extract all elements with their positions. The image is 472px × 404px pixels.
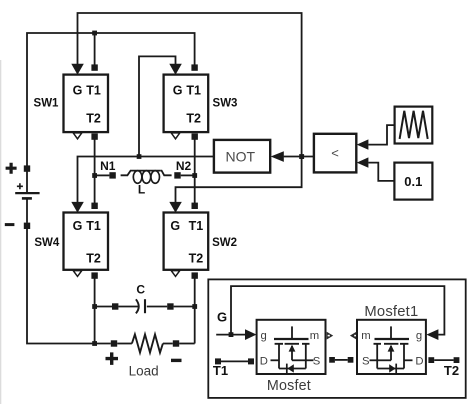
wire comparator output feedback to SW1 G (top bus) [78, 13, 302, 157]
wire bus to SW1 T1 [94, 33, 96, 65]
Mosfet1 channel link [377, 359, 391, 361]
NOT block [214, 140, 270, 173]
inset G input wire [216, 334, 245, 336]
svg-text:m: m [310, 330, 319, 342]
arrow into Mosfet1 g [426, 329, 438, 340]
svg-text:T2: T2 [186, 112, 201, 126]
wire comparator output to NOT input [284, 156, 314, 158]
junction square capacitor line right [192, 304, 197, 309]
wire node N1 stub [95, 174, 110, 176]
svg-text:0.1: 0.1 [404, 174, 422, 189]
svg-text:C: C [136, 283, 145, 297]
gate arrow into SW4 G [71, 202, 84, 213]
Mosfet1 gate stem [390, 326, 392, 338]
wire SW1 T2 down to SW4 T1 [94, 137, 96, 206]
switch block SW4 [64, 213, 109, 270]
wire SW4 T2 down to load line [94, 276, 96, 344]
wire comparator output down to SW2 G [176, 157, 302, 203]
output triangle below SW2 [171, 271, 180, 277]
arrow into Mosfet g [245, 329, 257, 340]
switch block SW3 [164, 75, 209, 133]
Mosfet1 gate bar [375, 338, 410, 340]
wire constant 0.1 to comparator [368, 163, 394, 181]
capacitor C [118, 306, 138, 308]
svg-text:T2: T2 [86, 112, 101, 126]
Mosfet U1 mid vertical [291, 346, 293, 360]
triangle waveform icon [400, 111, 428, 139]
Mosfet U1 gate stem [291, 326, 293, 338]
svg-text:N2: N2 [176, 159, 192, 173]
Mosfet1 D lead [404, 359, 413, 361]
battery wire to long plate [26, 171, 28, 193]
output triangle below SW3 [171, 133, 180, 139]
constant 0.1 block [394, 163, 432, 200]
battery negative port square [24, 223, 30, 229]
minus sign load [171, 359, 182, 362]
svg-text:SW3: SW3 [213, 97, 238, 109]
wire SW3 gate feed (from junction up and over) [139, 56, 176, 156]
svg-text:T1: T1 [86, 83, 101, 97]
svg-text:N1: N1 [100, 159, 116, 173]
svg-text:g: g [260, 330, 266, 342]
svg-text:<: < [331, 145, 339, 160]
switch block SW1 [64, 75, 109, 133]
wire NOT output to SW4 G [78, 157, 214, 203]
big plus sign battery [6, 163, 17, 174]
inset mid port square right [348, 357, 354, 363]
svg-text:G: G [217, 309, 227, 324]
wire SW3 T2 down to SW2 T1 [194, 137, 196, 206]
gate arrow into SW2 G [169, 202, 182, 213]
inset junction square on G wire [229, 332, 234, 337]
inset port square T1 [215, 358, 221, 364]
Mosfet1 contact stubs [374, 343, 409, 345]
svg-text:D: D [415, 356, 423, 368]
svg-text:T1: T1 [213, 363, 228, 378]
Mosfet U1 m port arrow [327, 332, 334, 340]
battery short plate [22, 197, 32, 200]
junction square node N2 [192, 173, 197, 178]
svg-text:SW2: SW2 [212, 237, 237, 249]
svg-text:SW1: SW1 [34, 97, 60, 109]
gate arrow into SW3 G [169, 64, 182, 75]
switch block SW2 [164, 213, 209, 270]
wire capacitor right stub [174, 306, 195, 308]
Mosfet U1 right vertical [305, 344, 307, 369]
Mosfet U1 contact stubs [275, 343, 310, 345]
svg-text:S: S [313, 356, 321, 368]
subsystem inset box [208, 279, 465, 398]
svg-text:Mosfet1: Mosfet1 [364, 304, 418, 320]
output triangle below SW1 [73, 133, 82, 139]
svg-text:m: m [361, 330, 370, 342]
svg-text:T1: T1 [189, 219, 204, 233]
svg-text:T2: T2 [444, 363, 459, 378]
svg-text:T2: T2 [86, 251, 101, 265]
svg-text:L: L [138, 182, 145, 196]
wire load right stub [179, 343, 195, 345]
svg-text:Load: Load [129, 364, 159, 379]
Mosfet U1 up arrow [289, 345, 296, 352]
svg-text:D: D [260, 356, 268, 368]
port square SW2 T1 [192, 203, 198, 209]
Mosfet U1 left vertical [278, 344, 280, 369]
port square N2 [174, 172, 180, 178]
Mosfet block U1 [257, 320, 326, 374]
wire capacitor left stub [95, 306, 112, 308]
svg-text:G: G [73, 83, 83, 97]
svg-text:G: G [173, 83, 183, 97]
port square N1 [109, 172, 115, 178]
load resistor [117, 343, 132, 345]
junction dot comparator output [299, 154, 304, 159]
big minus sign battery [5, 223, 15, 226]
wire battery negative return to load line [27, 229, 95, 344]
Mosfet U1 channel link [292, 359, 306, 361]
port square SW2 T2 [192, 272, 198, 278]
svg-text:T1: T1 [186, 83, 201, 97]
inset wire between S ports [335, 359, 348, 361]
left edge scan artifact [0, 60, 2, 404]
svg-text:S: S [362, 356, 370, 368]
Mosfet1 left vertical [376, 344, 378, 369]
port square SW1 T1 [91, 64, 97, 70]
Mosfet1 body diode [395, 364, 397, 374]
Mosfet1 up arrow [388, 345, 395, 352]
inductor L [121, 171, 133, 176]
Mosfet U1 body diode wire [279, 368, 306, 370]
inset wire Mosfet1 D to T2 [434, 359, 453, 361]
port square SW4 T1 [91, 203, 97, 209]
junction on DC plus bus above SW1 T1 [92, 31, 97, 36]
svg-text:NOT: NOT [226, 148, 256, 164]
port square load left [111, 340, 117, 346]
port square capacitor right [167, 303, 173, 309]
inset port square at Mosfet D [248, 358, 254, 364]
svg-text:T2: T2 [189, 251, 204, 265]
Mosfet U1 body diode [286, 364, 288, 374]
svg-text:g: g [416, 330, 422, 342]
svg-text:SW4: SW4 [34, 237, 60, 249]
battery small plus [17, 183, 23, 189]
Mosfet U1 gate bar [274, 338, 309, 340]
Mosfet U1 S lead [306, 359, 314, 361]
wire load left stub [95, 343, 111, 345]
plus sign load [106, 352, 119, 365]
port square load right [173, 340, 179, 346]
arrow into comparator upper input [357, 139, 369, 149]
inset port square at Mosfet1 D [428, 357, 434, 363]
inset wire T1 to Mosfet D [221, 360, 248, 362]
svg-text:Mosfet: Mosfet [267, 378, 311, 394]
battery long plate [15, 192, 39, 194]
wire DC plus bus (battery + to SW1 T1 / SW3 T1) [27, 33, 195, 166]
gate arrow into SW1 G [71, 64, 84, 75]
svg-text:G: G [73, 219, 83, 233]
junction dot on NOT output line [137, 154, 142, 159]
output triangle below SW4 [73, 271, 82, 277]
port square capacitor left [112, 303, 118, 309]
arrow into comparator lower input [357, 157, 369, 167]
port square SW1 T2 [91, 133, 97, 139]
inset feedback wire to Mosfet1 g [231, 286, 444, 335]
Mosfet1 S lead [370, 359, 378, 361]
svg-text:G: G [170, 219, 180, 233]
Mosfet U1 D lead [271, 359, 280, 361]
Mosfet1 right vertical [403, 344, 405, 369]
port square SW4 T2 [91, 272, 97, 278]
battery positive port square [24, 165, 30, 171]
battery wire to negative port [26, 198, 28, 222]
arrow into NOT input [271, 151, 284, 162]
Mosfet1 m port arrow [350, 332, 357, 340]
junction square load line left [92, 341, 97, 346]
comparator block [314, 134, 356, 173]
wire triangle source to comparator [368, 125, 394, 145]
Mosfet1 body diode wire [377, 368, 404, 370]
svg-text:T1: T1 [86, 219, 101, 233]
Mosfet1 mid vertical [390, 346, 392, 360]
port square SW3 T2 [192, 133, 198, 139]
wire node N2 stub [181, 174, 195, 176]
inset mid port square left [329, 357, 335, 363]
inset port square T2 [454, 357, 460, 363]
Mosfet1 block U2 [357, 320, 426, 374]
junction square node N1 [92, 173, 97, 178]
triangle wave source block [395, 107, 433, 144]
port square SW3 T1 [191, 64, 197, 70]
junction square capacitor line left [92, 304, 97, 309]
wire SW2 T2 down to load line [194, 276, 196, 344]
